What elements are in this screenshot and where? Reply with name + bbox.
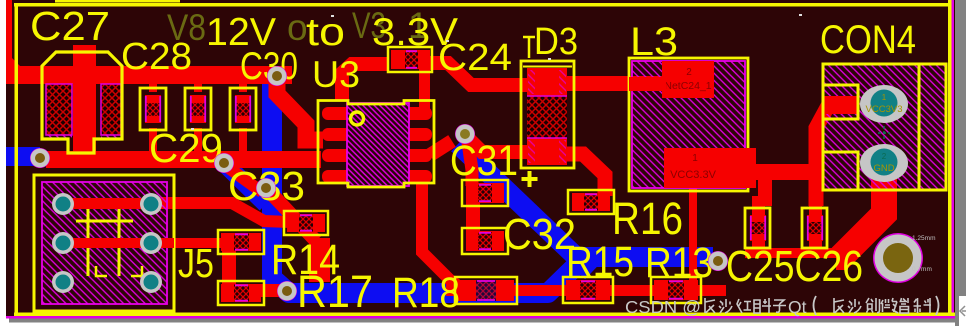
via R13 bbox=[708, 251, 728, 271]
glyph ke1 bbox=[914, 298, 932, 313]
node label plus bbox=[522, 171, 538, 187]
resistor R13 bbox=[651, 277, 701, 303]
svg-text:VCC3.3V: VCC3.3V bbox=[670, 169, 717, 181]
wire red verticals through C25 C26 bodies bbox=[752, 196, 765, 253]
capacitor C27 bbox=[42, 45, 122, 168]
glyph sha2 bbox=[848, 299, 861, 313]
svg-text:C31: C31 bbox=[450, 137, 518, 185]
svg-text:1: 1 bbox=[882, 93, 887, 102]
left white margin bbox=[0, 0, 6, 326]
glyph pang1 bbox=[754, 298, 771, 313]
wire red stubs C28 bbox=[149, 82, 157, 92]
wire red L3 pad1 right horizontal bbox=[716, 164, 823, 180]
inductor L3 bbox=[629, 58, 756, 191]
wire red stubs C30 bbox=[239, 82, 247, 92]
wire red via465 to C31 cap bbox=[468, 142, 472, 186]
capacitor under C31 bbox=[462, 180, 508, 206]
glyph sha1 bbox=[719, 299, 732, 313]
wire red elbow into 12V rail bbox=[6, 58, 38, 84]
svg-text:C28: C28 bbox=[121, 36, 192, 78]
svg-text:Qt: Qt bbox=[788, 297, 807, 317]
via C29 bbox=[214, 153, 234, 173]
wire red CON4 pad2 GND diagonal to C26 bbox=[836, 176, 884, 257]
board outline top bbox=[14, 3, 952, 7]
svg-text:0.7mm: 0.7mm bbox=[912, 266, 932, 273]
wire red J5 row1 over hatch bbox=[63, 198, 158, 209]
node speck dots bbox=[191, 14, 802, 130]
via GND big bbox=[873, 233, 935, 283]
glyph paren open bbox=[814, 296, 817, 315]
bottom grey scroll strip bbox=[6, 319, 955, 323]
wire red U3 pin5 to via465 bbox=[430, 141, 452, 155]
wire red vertical below R14 bbox=[309, 238, 330, 282]
svg-text:R13: R13 bbox=[645, 239, 713, 287]
svg-text:D3: D3 bbox=[534, 21, 578, 63]
glyph chang2 bbox=[834, 298, 844, 313]
capacitor C33 component bbox=[284, 211, 328, 235]
board outline right bbox=[948, 0, 952, 316]
svg-text:1: 1 bbox=[692, 153, 698, 164]
node scroll arrow bbox=[960, 306, 966, 316]
via C31 bbox=[455, 124, 475, 144]
wire red U3 pin8 up to C24 right pad bbox=[419, 69, 430, 109]
right grey strip bbox=[955, 0, 966, 326]
wire red D3 top pad to L3 pad2 bbox=[560, 76, 668, 91]
wire blue main: via C30 down, jog at via R17, right, up to via R13 bbox=[272, 84, 713, 293]
glyph chang1 bbox=[705, 298, 715, 313]
via left blue bbox=[30, 148, 50, 168]
svg-text:2: 2 bbox=[686, 67, 692, 78]
svg-text:C27: C27 bbox=[30, 3, 110, 49]
wire red via465 to D3 bottom pad bbox=[469, 139, 530, 152]
connector CON4 bbox=[823, 64, 946, 190]
wire red cap H to via287 bbox=[252, 284, 292, 297]
wire red vertical to CON4 pin1 and C26 bbox=[816, 104, 856, 206]
svg-text:o: o bbox=[287, 7, 308, 48]
wire red J5 row1 bbox=[63, 198, 158, 209]
wire red D3 bottom to R16 bbox=[562, 154, 605, 196]
wire red lower horizontal rail to U3 bbox=[46, 151, 321, 168]
wire red via224 diagonal bbox=[226, 166, 262, 192]
wire red C25 C26 bottom link bbox=[745, 248, 857, 258]
wire red J5 row1 elbow to C33 cap bbox=[150, 203, 290, 222]
glyph chuang4 bbox=[866, 298, 880, 313]
wire red 12V rail horizontal bbox=[6, 66, 292, 84]
node watermark CSDN bbox=[625, 297, 807, 317]
capacitor C30 bbox=[230, 88, 256, 130]
svg-text:CSDN @: CSDN @ bbox=[625, 297, 701, 317]
svg-text:R15: R15 bbox=[566, 238, 634, 286]
svg-text:R18: R18 bbox=[392, 269, 460, 317]
wire red R18 R15 R13 horizontal bbox=[446, 285, 726, 296]
svg-text:C24: C24 bbox=[438, 37, 512, 79]
wire red R14 caps vertical link bbox=[222, 241, 236, 293]
via C33 bbox=[256, 178, 276, 198]
capacitor C25 bbox=[745, 208, 770, 248]
wire blue stub left edge to via bbox=[6, 147, 40, 166]
wire red U3 pin down to R18 bbox=[422, 178, 464, 290]
wire red via277 wedge to U3 pins 1-2 bbox=[277, 78, 323, 140]
svg-text:L3: L3 bbox=[630, 20, 678, 64]
glyph zi1 bbox=[773, 300, 786, 312]
wire red C31 caps vertical link bbox=[466, 192, 480, 240]
connector J5 bbox=[34, 175, 174, 311]
board outline bottom bbox=[14, 313, 955, 317]
svg-text:R17: R17 bbox=[297, 266, 373, 317]
glyph zhi4 bbox=[900, 298, 909, 313]
wire blue diagonal under C31 C32 to R15 band bbox=[458, 144, 592, 272]
node watermark CJK glyphs bbox=[705, 296, 939, 315]
svg-text:1.25mm: 1.25mm bbox=[912, 235, 935, 242]
capacitor C29 bbox=[185, 88, 211, 130]
capacitor under C32 bbox=[462, 228, 508, 254]
wire red via266 diagonal down bbox=[268, 190, 316, 241]
diode D3 bbox=[521, 37, 574, 168]
wire red C24 right to D3 top pad bbox=[426, 63, 530, 85]
resistor R16 component bbox=[568, 190, 614, 214]
wire red C24 left to U3 top bbox=[342, 64, 388, 101]
board outline left bbox=[15, 3, 19, 316]
svg-text:VCC3V3: VCC3V3 bbox=[866, 104, 903, 115]
capacitor C24 bbox=[388, 47, 432, 72]
svg-text:CON4: CON4 bbox=[820, 18, 916, 62]
svg-text:R16: R16 bbox=[612, 193, 683, 244]
resistor R15 bbox=[563, 277, 613, 303]
wire red left border vertical bbox=[6, 0, 12, 79]
resistor cap G bbox=[218, 230, 264, 254]
J5 pads bbox=[52, 193, 162, 293]
svg-text:GND: GND bbox=[873, 163, 894, 174]
via C30 bbox=[267, 66, 287, 86]
svg-text:C29: C29 bbox=[149, 125, 223, 171]
glyph wei1 bbox=[881, 298, 898, 313]
wire blue branch from via C29 bbox=[226, 165, 266, 204]
svg-text:to: to bbox=[306, 11, 345, 54]
svg-text:U3: U3 bbox=[312, 54, 360, 95]
capacitor C28 bbox=[140, 88, 166, 130]
wire red branch down to C25 bbox=[758, 170, 772, 206]
capacitor C26 bbox=[802, 208, 827, 248]
via R17 bbox=[277, 281, 297, 301]
svg-text:NetC24_1: NetC24_1 bbox=[664, 80, 711, 92]
op-amp U3 bbox=[318, 101, 434, 188]
wire red J5 row2 over hatch bbox=[63, 238, 174, 248]
svg-text:J5: J5 bbox=[178, 240, 214, 286]
svg-text:2: 2 bbox=[882, 152, 887, 161]
glyph hong1 bbox=[737, 299, 751, 313]
wire red over L3 hatch into pad2 bbox=[629, 77, 666, 91]
wire red stubs C29 bbox=[194, 82, 202, 92]
svg-text:C25C26: C25C26 bbox=[726, 242, 863, 291]
resistor cap H bbox=[218, 281, 264, 305]
resistor R18 bbox=[455, 277, 517, 304]
glyph paren close bbox=[936, 296, 939, 315]
wire red J5 row2 to R14 cap bbox=[63, 238, 233, 248]
wire red L3 pad1 thin down to R13 bbox=[689, 186, 697, 288]
